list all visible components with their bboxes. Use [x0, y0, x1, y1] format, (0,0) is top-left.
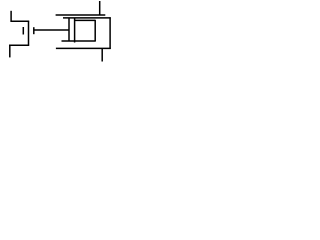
terminal lead top: [99, 1, 101, 16]
shield box U1 top edge: [63, 17, 111, 19]
wire top node: [56, 14, 106, 16]
transistor Q1 gate plate right: [33, 27, 35, 34]
transistor Q1 source lead wire: [9, 45, 11, 58]
wire inner bottom: [62, 40, 96, 42]
capacitor plate left: [68, 18, 70, 41]
wire inner top: [75, 19, 96, 21]
wire bottom node: [56, 47, 111, 49]
wire inner right vertical: [94, 20, 96, 41]
wire drain horizontal: [11, 20, 30, 22]
transistor Q1 drain lead wire: [10, 11, 12, 22]
transistor Q1 gate bar left: [22, 27, 24, 35]
shield box U1 right edge: [109, 17, 111, 49]
capacitor plate right: [74, 18, 76, 43]
transistor Q1 channel bar: [28, 21, 30, 46]
terminal lead bottom: [101, 48, 103, 61]
wire gate to capsule: [34, 29, 69, 31]
wire source horizontal: [9, 44, 29, 46]
